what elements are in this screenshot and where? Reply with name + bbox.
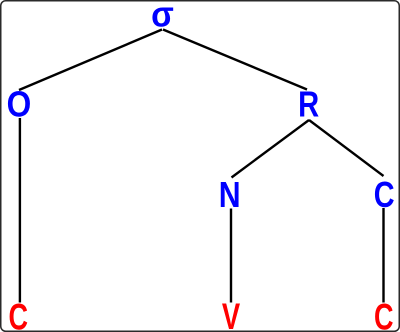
wire sigma to O bbox=[19, 30, 162, 91]
node C (coda) bbox=[374, 174, 395, 215]
svg-text:V: V bbox=[222, 296, 241, 332]
wire sigma to R bbox=[163, 30, 307, 90]
node O (onset) bbox=[7, 85, 32, 125]
wire N to V (middle vertical) bbox=[230, 209, 232, 303]
svg-text:C: C bbox=[8, 296, 28, 332]
wire C to C (right vertical) bbox=[382, 208, 384, 303]
wire O to C (left vertical) bbox=[19, 118, 21, 303]
node N (nucleus) bbox=[219, 176, 241, 216]
wire R to N bbox=[232, 120, 310, 178]
svg-text:N: N bbox=[219, 176, 241, 216]
node R (rhyme) bbox=[298, 84, 319, 125]
leaf C (consonant) bbox=[8, 296, 28, 332]
leaf V (vowel) bbox=[222, 296, 241, 332]
wire R to C bbox=[309, 120, 384, 176]
svg-text:O: O bbox=[7, 85, 32, 125]
svg-text:C: C bbox=[374, 296, 394, 332]
leaf C (consonant) bbox=[374, 296, 394, 332]
svg-text:σ: σ bbox=[151, 0, 174, 35]
node sigma (syllable) bbox=[151, 0, 174, 35]
svg-text:R: R bbox=[298, 84, 319, 125]
svg-text:C: C bbox=[374, 174, 395, 215]
